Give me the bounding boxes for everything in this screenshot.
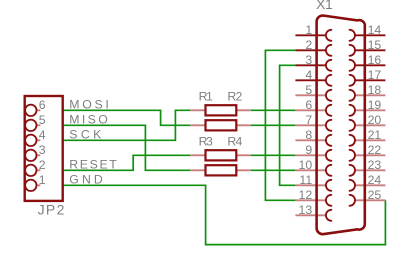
svg-text:25: 25: [368, 188, 382, 202]
svg-text:7: 7: [305, 113, 312, 127]
svg-text:RESET: RESET: [69, 158, 117, 172]
svg-text:5: 5: [305, 83, 312, 97]
svg-text:18: 18: [368, 83, 382, 97]
svg-text:R2: R2: [227, 90, 242, 104]
svg-text:JP2: JP2: [38, 202, 65, 218]
svg-text:5: 5: [39, 113, 46, 127]
svg-text:10: 10: [299, 158, 313, 172]
svg-text:1: 1: [305, 23, 312, 37]
svg-text:2: 2: [39, 158, 46, 172]
svg-text:SCK: SCK: [69, 128, 102, 142]
svg-text:3: 3: [39, 143, 46, 157]
svg-text:2: 2: [305, 38, 312, 52]
svg-text:23: 23: [368, 158, 382, 172]
svg-text:14: 14: [368, 23, 382, 37]
svg-text:MISO: MISO: [69, 113, 108, 127]
svg-text:12: 12: [299, 188, 313, 202]
svg-text:R1: R1: [199, 90, 213, 104]
svg-text:13: 13: [299, 203, 313, 217]
svg-text:3: 3: [305, 53, 312, 67]
svg-text:GND: GND: [69, 173, 103, 187]
svg-text:20: 20: [368, 113, 382, 127]
svg-text:24: 24: [368, 173, 382, 187]
svg-text:21: 21: [368, 128, 382, 142]
svg-text:4: 4: [39, 128, 46, 142]
svg-text:15: 15: [368, 38, 382, 52]
svg-text:17: 17: [368, 68, 382, 82]
svg-text:9: 9: [305, 143, 312, 157]
svg-text:1: 1: [39, 173, 46, 187]
svg-text:19: 19: [368, 98, 382, 112]
svg-text:6: 6: [39, 98, 46, 112]
svg-text:22: 22: [368, 143, 382, 157]
svg-text:6: 6: [305, 98, 312, 112]
svg-text:11: 11: [299, 173, 312, 187]
svg-text:R3: R3: [199, 135, 213, 149]
svg-text:16: 16: [368, 53, 382, 67]
svg-text:X1: X1: [316, 0, 333, 12]
svg-text:R4: R4: [227, 135, 242, 149]
svg-text:4: 4: [305, 68, 312, 82]
svg-text:8: 8: [305, 128, 312, 142]
